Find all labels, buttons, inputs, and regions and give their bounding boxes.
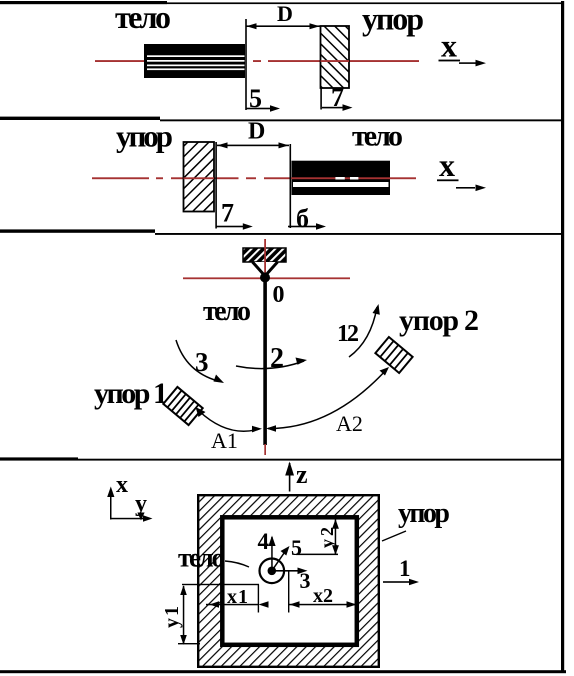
red axis above pivot P3: [264, 239, 266, 274]
body circle P4: [260, 559, 285, 584]
arrow 4 (up) P4: [271, 537, 273, 571]
extension line below stop P1: [320, 88, 322, 110]
dimension x1 P4: [206, 604, 259, 606]
extension line at body left edge P2: [290, 144, 292, 228]
outer stop frame P4 (hatched ring): [198, 495, 379, 667]
svg-text:x1: x1: [227, 586, 248, 608]
coordinate axes x,y P4: [107, 472, 152, 522]
arrow 5 (diagonal) P4: [272, 550, 287, 571]
svg-text:D: D: [277, 1, 293, 26]
svg-text:упор: упор: [362, 1, 424, 37]
svg-text:A2: A2: [336, 411, 363, 436]
svg-text:x: x: [441, 28, 457, 64]
svg-text:A1: A1: [211, 428, 238, 453]
stop block 1 P3 (rotated, rungs): [163, 387, 202, 425]
stop block P1 (hatched): [321, 26, 350, 88]
arc A1 P3: [199, 411, 259, 431]
svg-text:упор: упор: [116, 119, 173, 154]
pivot dot P3: [260, 273, 270, 283]
svg-text:3: 3: [300, 568, 311, 593]
arc arrow 3 P3: [176, 340, 218, 381]
svg-text:упор 2: упор 2: [399, 304, 479, 337]
centerline red P1: [95, 60, 419, 62]
leader line упор P4: [382, 531, 406, 541]
arrow 2 P3: [236, 361, 304, 369]
svg-text:2: 2: [270, 343, 284, 374]
svg-text:z: z: [296, 460, 308, 489]
arc arrow 12 P3: [349, 307, 377, 357]
table top border: [0, 1, 167, 4]
row separator 1: [0, 117, 160, 120]
stop block P2 (hatched): [184, 142, 215, 212]
svg-text:x: x: [116, 472, 128, 498]
svg-text:3: 3: [195, 347, 209, 377]
svg-text:0: 0: [273, 282, 285, 308]
centerline red over body P2: [292, 177, 417, 179]
red tick below rod P3: [264, 444, 266, 455]
stop block 2 P3 (rotated, rungs): [375, 337, 412, 373]
row separator 3: [0, 457, 78, 460]
axis x P1: [439, 28, 487, 67]
inner frame wall P4: [222, 517, 356, 645]
svg-text:тело: тело: [115, 0, 171, 35]
svg-text:б: б: [296, 204, 309, 233]
extension line at stop right edge P2: [215, 142, 217, 229]
table bottom border: [0, 670, 566, 673]
svg-text:4: 4: [258, 529, 270, 554]
svg-text:x2: x2: [313, 585, 333, 607]
svg-text:упор 1: упор 1: [94, 377, 168, 410]
dimension y2 P4: [335, 520, 337, 555]
svg-text:тело: тело: [352, 120, 403, 153]
svg-text:x: x: [439, 147, 455, 183]
pivot triangle P3: [253, 262, 278, 276]
extension line at body right edge P1: [245, 19, 247, 110]
svg-text:тело: тело: [178, 543, 225, 573]
svg-text:D: D: [248, 119, 265, 145]
extension line circle bottom P4: [182, 584, 259, 585]
centerline red over stop P2: [184, 177, 215, 179]
svg-text:12: 12: [337, 321, 359, 347]
svg-text:1: 1: [399, 556, 411, 581]
svg-text:y1: y1: [161, 606, 183, 628]
arrow 3 (right) P4: [272, 570, 302, 572]
svg-text:тело: тело: [203, 296, 251, 327]
centerline red P2 left: [92, 177, 292, 179]
axis x P2: [437, 147, 486, 191]
arc A2 P3: [268, 369, 387, 429]
svg-text:7: 7: [221, 199, 234, 228]
centerline red over stop P1: [321, 60, 350, 62]
body P1 (striped bar): [144, 44, 245, 78]
body P2 (striped bar): [292, 161, 391, 195]
pivot bar (hatched) P3: [243, 248, 286, 262]
dimension D line P1: [246, 25, 320, 27]
table right border: [561, 1, 564, 673]
red horizontal line P3: [183, 277, 350, 279]
arrow z P4: [289, 463, 291, 492]
svg-text:упор: упор: [398, 498, 450, 529]
svg-text:5: 5: [291, 535, 302, 560]
pendulum rod P3: [263, 278, 267, 445]
dimension x2 P4: [289, 604, 357, 606]
dimension D line P2: [217, 145, 289, 147]
dimension y1 P4: [183, 586, 185, 644]
row separator 2: [0, 229, 155, 232]
